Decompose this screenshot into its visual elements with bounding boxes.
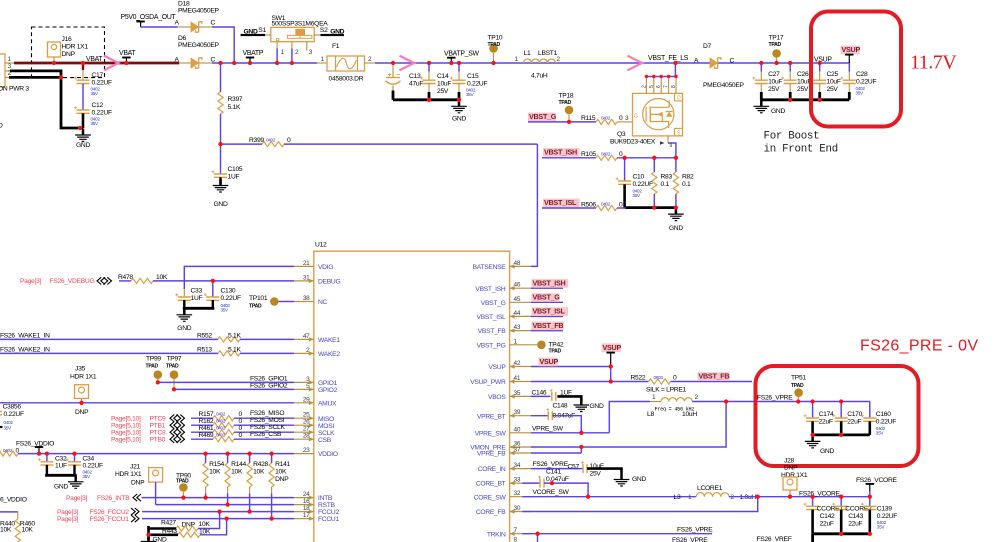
- svg-text:FS26_FCCU1: FS26_FCCU1: [90, 516, 130, 523]
- svg-text:37: 37: [514, 447, 521, 454]
- svg-text:0.22UF: 0.22UF: [83, 462, 103, 469]
- svg-text:D: D: [0, 123, 3, 130]
- svg-text:R82: R82: [682, 174, 694, 181]
- svg-text:DNP: DNP: [75, 409, 89, 416]
- svg-text:CSB: CSB: [318, 437, 332, 444]
- svg-text:45: 45: [514, 296, 521, 303]
- svg-text:VBOS: VBOS: [488, 394, 506, 401]
- svg-text:VSUP: VSUP: [603, 343, 622, 352]
- svg-text:R522: R522: [631, 374, 646, 381]
- svg-text:43: 43: [514, 324, 521, 331]
- svg-text:C15: C15: [467, 73, 479, 80]
- svg-text:TPAD: TPAD: [488, 42, 501, 48]
- svg-text:D6: D6: [178, 35, 187, 42]
- svg-text:5.1K: 5.1K: [228, 104, 241, 111]
- svg-text:SCLK: SCLK: [318, 430, 335, 437]
- svg-text:C143: C143: [848, 513, 863, 520]
- svg-text:R162: R162: [199, 418, 214, 425]
- svg-text:PMEG4050EP: PMEG4050EP: [178, 8, 220, 15]
- svg-text:D: D: [677, 96, 681, 102]
- svg-text:35V: 35V: [4, 426, 13, 431]
- svg-text:PTB0: PTB0: [150, 437, 166, 444]
- svg-text:10uF: 10uF: [827, 79, 841, 86]
- svg-text:C3856: C3856: [3, 404, 22, 411]
- svg-text:0.22UF: 0.22UF: [92, 80, 112, 87]
- svg-text:C142: C142: [820, 513, 835, 520]
- svg-text:DNP: DNP: [62, 51, 76, 58]
- svg-text:5.1K: 5.1K: [228, 332, 241, 339]
- svg-text:VPRE_FB: VPRE_FB: [477, 451, 506, 458]
- svg-text:10K: 10K: [22, 526, 34, 533]
- svg-text:TP99: TP99: [146, 356, 161, 363]
- svg-text:MISO: MISO: [318, 416, 334, 423]
- svg-text:C34: C34: [83, 455, 95, 462]
- svg-text:D18: D18: [178, 1, 190, 8]
- svg-text:0: 0: [619, 151, 623, 158]
- svg-text:1UF: 1UF: [228, 174, 240, 181]
- svg-text:GPIO1: GPIO1: [318, 380, 338, 387]
- svg-text:Q3: Q3: [617, 131, 626, 138]
- svg-text:TPAD: TPAD: [559, 100, 572, 106]
- svg-text:GND: GND: [153, 537, 167, 542]
- svg-text:ON PWR 3: ON PWR 3: [0, 86, 29, 93]
- svg-text:FS26_WAKE1_IN: FS26_WAKE1_IN: [0, 332, 50, 339]
- svg-text:25V: 25V: [437, 88, 449, 95]
- svg-text:VSUP: VSUP: [540, 357, 559, 366]
- svg-text:GND: GND: [54, 484, 68, 491]
- svg-text:47uF: 47uF: [409, 81, 423, 88]
- svg-text:C105: C105: [228, 166, 243, 173]
- svg-text:38: 38: [303, 295, 310, 302]
- svg-text:30: 30: [514, 505, 521, 512]
- svg-text:C141: C141: [546, 469, 561, 476]
- svg-text:0402: 0402: [601, 202, 611, 207]
- svg-text:VBST_G: VBST_G: [529, 112, 557, 121]
- svg-text:1: 1: [281, 49, 285, 56]
- svg-text:FS26_VREF: FS26_VREF: [757, 536, 792, 542]
- svg-text:R157: R157: [199, 411, 214, 418]
- svg-text:22uF: 22uF: [819, 419, 833, 426]
- svg-text:C130: C130: [221, 288, 236, 295]
- svg-text:R115: R115: [581, 115, 596, 122]
- svg-text:SILK = LPRE1: SILK = LPRE1: [646, 387, 687, 394]
- svg-text:0.22UF: 0.22UF: [221, 295, 241, 302]
- svg-text:10K: 10K: [209, 469, 221, 476]
- svg-text:VPRE_SW: VPRE_SW: [532, 426, 564, 433]
- svg-text:MOSI: MOSI: [318, 423, 334, 430]
- svg-text:FS26_FCCU2: FS26_FCCU2: [90, 509, 130, 516]
- svg-text:FS26_VPRE: FS26_VPRE: [757, 395, 793, 402]
- svg-text:DEBUG: DEBUG: [318, 279, 340, 286]
- svg-text:HDR 1X1: HDR 1X1: [781, 472, 808, 479]
- svg-text:TPAD: TPAD: [249, 304, 262, 310]
- svg-text:VPRE_SW: VPRE_SW: [475, 430, 507, 437]
- svg-text:0: 0: [619, 201, 623, 208]
- svg-text:L3: L3: [674, 494, 681, 501]
- svg-text:LBST1: LBST1: [538, 50, 558, 57]
- svg-text:D7: D7: [703, 43, 712, 50]
- svg-text:1: 1: [515, 56, 519, 63]
- svg-text:44: 44: [514, 310, 521, 317]
- svg-text:AMUX: AMUX: [318, 400, 337, 407]
- svg-text:FS26_MOSI: FS26_MOSI: [250, 417, 285, 424]
- svg-text:0.22UF: 0.22UF: [633, 181, 653, 188]
- svg-text:0458003.DR: 0458003.DR: [329, 76, 364, 83]
- svg-text:0: 0: [673, 374, 677, 381]
- svg-text:VBST_FB: VBST_FB: [533, 321, 564, 330]
- svg-text:Page[3]: Page[3]: [66, 495, 88, 502]
- svg-text:INTB: INTB: [318, 495, 333, 502]
- svg-text:TP97: TP97: [167, 356, 182, 363]
- svg-text:0.22UF: 0.22UF: [877, 513, 897, 520]
- svg-text:32: 32: [514, 490, 521, 497]
- svg-text:0.22UF: 0.22UF: [467, 81, 487, 88]
- svg-text:10uF: 10uF: [768, 79, 782, 86]
- svg-text:VBST_ISH: VBST_ISH: [475, 286, 506, 293]
- svg-text:41: 41: [514, 375, 521, 382]
- svg-text:VBST_ISL: VBST_ISL: [533, 307, 566, 316]
- svg-text:35V: 35V: [633, 193, 642, 198]
- svg-text:PTC8: PTC8: [150, 430, 167, 437]
- svg-text:C: C: [730, 58, 735, 65]
- svg-text:0: 0: [239, 411, 243, 418]
- svg-text:CORE_BT: CORE_BT: [476, 481, 506, 488]
- svg-text:C33: C33: [191, 288, 203, 295]
- svg-text:VPRE_BT: VPRE_BT: [477, 413, 506, 420]
- svg-text:VBATP: VBATP: [243, 50, 264, 57]
- svg-text:C160: C160: [876, 411, 891, 418]
- svg-text:C17: C17: [92, 72, 104, 79]
- svg-text:2: 2: [695, 394, 699, 401]
- svg-text:C170: C170: [847, 411, 862, 418]
- svg-text:25V: 25V: [590, 471, 602, 478]
- svg-text:0402: 0402: [601, 152, 611, 157]
- svg-text:FCCU2: FCCU2: [318, 509, 339, 516]
- svg-text:C57: C57: [568, 464, 580, 471]
- svg-text:R154: R154: [209, 461, 224, 468]
- svg-text:35V: 35V: [91, 91, 100, 96]
- svg-text:1UF: 1UF: [55, 462, 67, 469]
- svg-text:35V: 35V: [91, 121, 100, 126]
- svg-text:FS26_VDEBUG: FS26_VDEBUG: [50, 278, 95, 285]
- svg-text:39: 39: [514, 409, 521, 416]
- svg-text:VSUP: VSUP: [842, 45, 861, 54]
- svg-text:R506: R506: [581, 201, 596, 208]
- svg-text:GND: GND: [632, 476, 646, 483]
- svg-text:10K: 10K: [199, 521, 211, 528]
- svg-text:VBST_ISH: VBST_ISH: [544, 148, 577, 157]
- svg-text:DNP: DNP: [275, 476, 289, 483]
- svg-text:C: C: [211, 56, 216, 63]
- svg-text:PMEG4050EP: PMEG4050EP: [703, 82, 745, 89]
- svg-text:FS26_WAKE2_IN: FS26_WAKE2_IN: [0, 346, 50, 353]
- svg-text:C32: C32: [55, 455, 67, 462]
- svg-text:34: 34: [514, 462, 521, 469]
- svg-text:23: 23: [303, 447, 310, 454]
- svg-text:0: 0: [287, 137, 291, 144]
- svg-text:GND: GND: [177, 325, 191, 332]
- svg-text:F1: F1: [332, 43, 340, 50]
- svg-text:TPAD: TPAD: [769, 42, 782, 48]
- svg-text:FS26_VPRE: FS26_VPRE: [533, 461, 569, 468]
- svg-text:TPAD: TPAD: [549, 349, 562, 355]
- svg-text:BATSENSE: BATSENSE: [473, 264, 507, 271]
- svg-text:J28: J28: [784, 458, 795, 465]
- svg-text:VBAT: VBAT: [119, 50, 136, 57]
- svg-text:WAKE1: WAKE1: [318, 337, 340, 344]
- svg-text:C148: C148: [553, 403, 568, 410]
- svg-text:FS26_VPRE: FS26_VPRE: [672, 537, 708, 542]
- svg-text:FS26_INTB: FS26_INTB: [97, 495, 130, 502]
- svg-text:1: 1: [652, 394, 656, 401]
- svg-text:J16: J16: [62, 36, 73, 43]
- svg-text:LCORE1: LCORE1: [697, 485, 723, 492]
- svg-text:R83: R83: [661, 174, 673, 181]
- svg-text:VBST_ISL: VBST_ISL: [544, 198, 577, 207]
- svg-text:C14: C14: [437, 73, 449, 80]
- svg-text:0: 0: [239, 432, 243, 439]
- svg-text:S2: S2: [320, 27, 328, 34]
- svg-text:VSUP_PWR: VSUP_PWR: [470, 379, 506, 386]
- svg-text:C: C: [211, 19, 216, 26]
- svg-text:L8: L8: [647, 411, 654, 418]
- svg-text:4.7uH: 4.7uH: [531, 73, 548, 80]
- svg-text:R513: R513: [197, 346, 212, 353]
- svg-text:CORE_FB: CORE_FB: [476, 509, 506, 516]
- svg-text:8: 8: [514, 537, 518, 542]
- svg-text:VBST_FE_LS: VBST_FE_LS: [648, 55, 689, 62]
- svg-text:TP10: TP10: [488, 35, 503, 42]
- svg-text:Page[3]: Page[3]: [57, 509, 79, 516]
- svg-text:C27: C27: [768, 71, 780, 78]
- svg-text:0: 0: [239, 425, 243, 432]
- svg-text:25V: 25V: [827, 86, 839, 93]
- svg-text:VBST_FB: VBST_FB: [478, 328, 507, 335]
- svg-text:22uF: 22uF: [820, 521, 834, 528]
- svg-text:C26: C26: [797, 71, 809, 78]
- svg-text:C28: C28: [856, 71, 868, 78]
- svg-text:FS26_GPIO2: FS26_GPIO2: [250, 382, 288, 389]
- svg-text:R427: R427: [161, 520, 176, 527]
- svg-text:R469: R469: [199, 432, 214, 439]
- svg-text:VDDIO: VDDIO: [318, 451, 338, 458]
- svg-text:2: 2: [295, 49, 299, 56]
- svg-text:25V: 25V: [768, 86, 780, 93]
- svg-text:TPAD: TPAD: [166, 364, 179, 370]
- svg-text:C25: C25: [827, 71, 839, 78]
- svg-text:P5V0_OSDA_OUT: P5V0_OSDA_OUT: [121, 14, 177, 21]
- svg-text:FCCU1: FCCU1: [318, 516, 339, 523]
- svg-text:C174: C174: [819, 411, 834, 418]
- svg-text:0.1: 0.1: [682, 181, 691, 188]
- svg-text:VDIG: VDIG: [318, 264, 333, 271]
- svg-text:46: 46: [514, 282, 521, 289]
- svg-text:0.22UF: 0.22UF: [876, 419, 896, 426]
- svg-text:G: G: [634, 114, 638, 120]
- svg-text:GND: GND: [771, 108, 785, 115]
- svg-text:GND: GND: [76, 142, 90, 149]
- svg-text:A: A: [175, 19, 180, 26]
- svg-text:0: 0: [239, 418, 243, 425]
- svg-text:10uF: 10uF: [437, 81, 451, 88]
- svg-text:C146: C146: [532, 389, 547, 396]
- svg-text:L1: L1: [524, 50, 531, 57]
- svg-text:6_VDDIO: 6_VDDIO: [0, 497, 27, 504]
- svg-text:35: 35: [514, 390, 521, 397]
- svg-text:TP17: TP17: [769, 35, 784, 42]
- svg-text:VSUP: VSUP: [814, 57, 832, 64]
- svg-text:FS26_CSB: FS26_CSB: [250, 431, 282, 438]
- svg-text:TPAD: TPAD: [791, 383, 804, 389]
- svg-text:FS26_VPRE: FS26_VPRE: [677, 527, 713, 534]
- svg-text:3: 3: [625, 115, 629, 122]
- svg-text:FS26_SCLK: FS26_SCLK: [250, 424, 285, 431]
- svg-text:NC: NC: [318, 299, 328, 306]
- svg-text:VSUP: VSUP: [488, 364, 506, 371]
- svg-text:C13: C13: [409, 73, 421, 80]
- svg-text:R552: R552: [197, 332, 212, 339]
- svg-text:Page[5,10]: Page[5,10]: [111, 430, 141, 437]
- svg-text:PMEG4050EP: PMEG4050EP: [178, 42, 220, 49]
- svg-text:10K: 10K: [156, 274, 168, 281]
- svg-text:0.22UF: 0.22UF: [92, 110, 112, 117]
- svg-text:0: 0: [619, 115, 623, 122]
- svg-text:CORE_SW: CORE_SW: [474, 494, 507, 501]
- svg-text:Page[5,10]: Page[5,10]: [111, 423, 141, 430]
- svg-text:0402: 0402: [3, 448, 13, 453]
- svg-text:TRKIN: TRKIN: [487, 531, 506, 538]
- svg-text:HDR 1X1: HDR 1X1: [115, 471, 142, 478]
- svg-text:Page[3]: Page[3]: [20, 278, 42, 285]
- svg-text:J21: J21: [130, 464, 141, 471]
- svg-text:33: 33: [514, 477, 521, 484]
- svg-text:TP101: TP101: [249, 295, 268, 302]
- svg-text:VBST_G: VBST_G: [533, 293, 561, 302]
- svg-text:VBST_ISL: VBST_ISL: [477, 314, 507, 321]
- svg-text:C10: C10: [633, 174, 645, 181]
- svg-text:R428: R428: [253, 461, 268, 468]
- svg-text:FS26_VCORE: FS26_VCORE: [799, 490, 841, 497]
- svg-text:VCORE_SW: VCORE_SW: [533, 489, 570, 496]
- svg-text:GPIO2: GPIO2: [318, 387, 338, 394]
- svg-text:R141: R141: [275, 461, 290, 468]
- svg-text:BUK9D23-40EX: BUK9D23-40EX: [610, 139, 656, 146]
- svg-text:Page[5,10]: Page[5,10]: [111, 416, 141, 423]
- svg-text:HDR 1X1: HDR 1X1: [62, 44, 89, 51]
- svg-text:0402: 0402: [601, 116, 611, 121]
- svg-text:21: 21: [303, 260, 310, 267]
- svg-text:Page[3]: Page[3]: [57, 516, 79, 523]
- svg-text:R397: R397: [228, 96, 243, 103]
- svg-text:VBATP_SW: VBATP_SW: [444, 51, 480, 58]
- svg-text:TPAD: TPAD: [146, 364, 159, 370]
- svg-text:PTC9: PTC9: [150, 416, 167, 423]
- svg-text:TP18: TP18: [559, 93, 574, 100]
- svg-text:DNP: DNP: [784, 465, 798, 472]
- svg-text:FS26_MISO: FS26_MISO: [250, 410, 284, 417]
- svg-text:22uF: 22uF: [847, 419, 861, 426]
- svg-text:GND: GND: [452, 116, 466, 123]
- svg-text:TP42: TP42: [549, 342, 564, 349]
- svg-text:C12: C12: [92, 102, 104, 109]
- svg-text:FS26_PRE - 0V: FS26_PRE - 0V: [860, 338, 978, 355]
- svg-text:11.7V: 11.7V: [910, 52, 957, 74]
- svg-text:0402: 0402: [4, 420, 14, 425]
- svg-text:J35: J35: [75, 366, 86, 373]
- svg-text:0.047uF: 0.047uF: [546, 476, 569, 483]
- svg-text:0.1: 0.1: [661, 181, 670, 188]
- svg-text:GND: GND: [820, 448, 834, 455]
- svg-text:10uH: 10uH: [682, 411, 697, 418]
- svg-text:RSTB: RSTB: [318, 502, 336, 509]
- svg-text:10K: 10K: [253, 469, 265, 476]
- svg-text:For Boost: For Boost: [764, 131, 820, 143]
- svg-text:5.1K: 5.1K: [228, 346, 241, 353]
- svg-text:C139: C139: [877, 506, 892, 513]
- svg-text:0.22UF: 0.22UF: [856, 79, 876, 86]
- svg-text:2: 2: [368, 56, 372, 63]
- svg-text:35V: 35V: [83, 474, 92, 479]
- svg-text:Page[5,10]: Page[5,10]: [111, 437, 141, 444]
- svg-text:TP51: TP51: [791, 375, 806, 382]
- svg-text:35V: 35V: [466, 92, 475, 97]
- svg-text:in Front End: in Front End: [764, 144, 838, 156]
- svg-text:R144: R144: [231, 461, 246, 468]
- svg-text:35V: 35V: [876, 431, 885, 436]
- svg-text:35V: 35V: [877, 525, 886, 530]
- svg-text:VBST_FB: VBST_FB: [699, 372, 730, 381]
- svg-text:PTB1: PTB1: [150, 423, 166, 430]
- svg-text:40: 40: [514, 426, 521, 433]
- svg-text:42: 42: [514, 360, 521, 367]
- svg-text:WAKE2: WAKE2: [318, 351, 340, 358]
- svg-text:VBST_ISH: VBST_ISH: [533, 279, 566, 288]
- svg-text:10K: 10K: [231, 469, 243, 476]
- svg-text:GND: GND: [590, 403, 604, 410]
- svg-text:VBAT: VBAT: [86, 56, 103, 63]
- svg-text:GND: GND: [213, 201, 227, 208]
- svg-text:1: 1: [8, 56, 12, 63]
- svg-text:3: 3: [309, 49, 313, 56]
- svg-text:CORE_IN: CORE_IN: [478, 466, 506, 473]
- svg-text:FS26_VCORE: FS26_VCORE: [856, 477, 898, 484]
- svg-text:1UF: 1UF: [191, 295, 203, 302]
- svg-text:GND: GND: [669, 225, 683, 232]
- svg-text:9: 9: [670, 143, 673, 149]
- svg-text:R461: R461: [199, 425, 214, 432]
- svg-text:35V: 35V: [856, 91, 865, 96]
- svg-text:48: 48: [514, 260, 521, 267]
- svg-text:10K: 10K: [275, 469, 287, 476]
- svg-text:2: 2: [557, 56, 561, 63]
- svg-text:35V: 35V: [221, 308, 230, 313]
- svg-text:25V: 25V: [797, 86, 809, 93]
- svg-text:U12: U12: [315, 242, 327, 249]
- svg-text:S1: S1: [258, 27, 266, 34]
- svg-text:HDR 1X1: HDR 1X1: [70, 374, 97, 381]
- svg-text:VBST_PG: VBST_PG: [477, 342, 506, 349]
- svg-text:0.22UF: 0.22UF: [4, 411, 24, 418]
- svg-text:DNP: DNP: [131, 480, 145, 487]
- svg-text:1: 1: [321, 56, 325, 63]
- svg-text:22uF: 22uF: [848, 521, 862, 528]
- svg-text:R105: R105: [581, 151, 596, 158]
- svg-text:FS26_GPIO1: FS26_GPIO1: [250, 375, 288, 382]
- svg-text:VBST_G: VBST_G: [481, 300, 506, 307]
- svg-text:10K: 10K: [0, 526, 12, 533]
